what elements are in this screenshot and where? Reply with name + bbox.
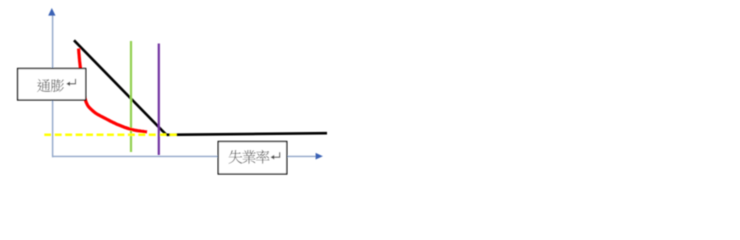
return mark after 失業率 [273,152,279,157]
text 率 [256,150,270,164]
y-axis (inflation axis) shaft [52,15,54,158]
x-axis (unemployment axis) shaft [52,155,316,157]
text 業 [242,150,256,164]
return mark after 通膨 [69,79,75,84]
y-axis arrowhead [48,8,55,16]
unemployment label box [218,142,287,175]
black horizontal segment (long-run flat) [166,133,327,135]
green vertical line [130,41,132,152]
black diagonal Phillips line [74,40,166,135]
inflation label box [18,69,86,101]
red curve (short-run Phillips curve) [79,49,148,133]
x-axis arrowhead [316,153,323,160]
purple vertical line [158,44,160,156]
text 膨 [51,79,64,92]
text 失 [228,150,242,164]
text 通 [37,79,50,92]
yellow dashed horizontal line [44,133,179,136]
